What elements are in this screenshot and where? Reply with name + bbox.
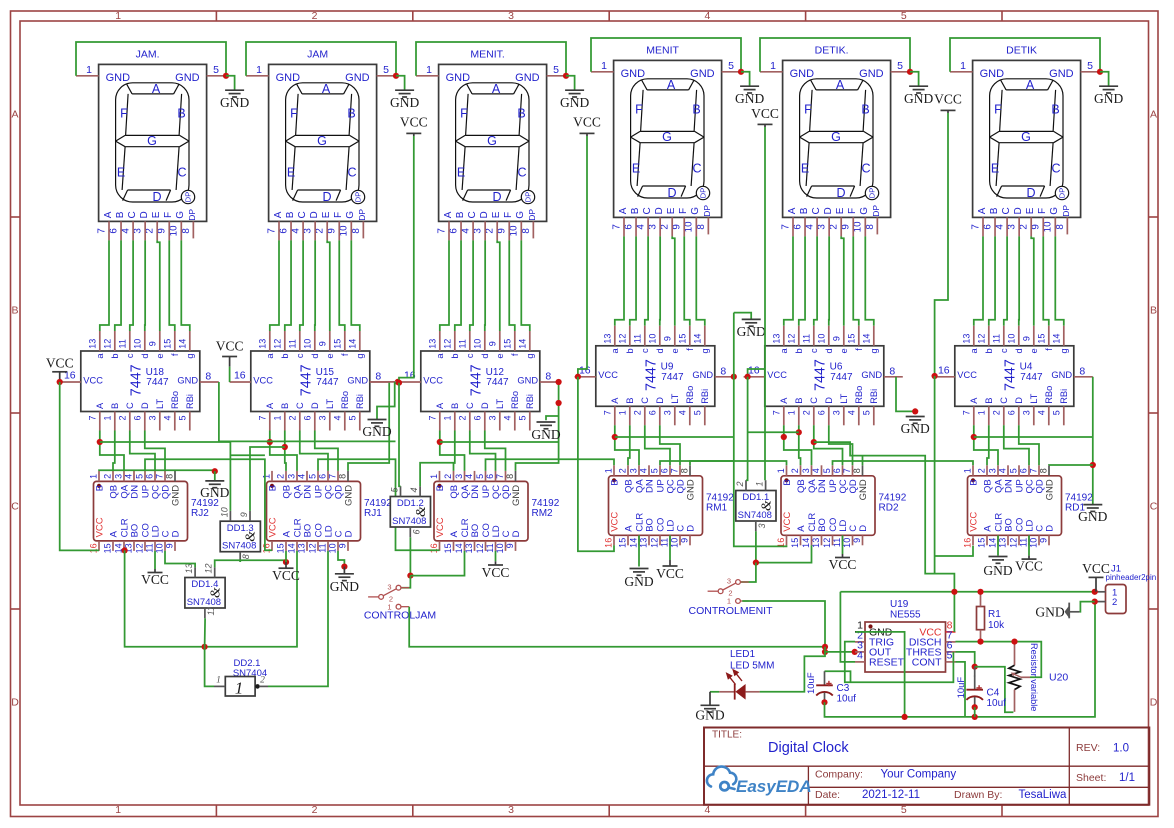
junction RJ2 CLR	[122, 547, 128, 553]
svg-text:1: 1	[770, 60, 776, 72]
7-segment display MENIT	[601, 44, 734, 232]
svg-text:TesaLiwa: TesaLiwa	[1019, 789, 1068, 801]
svg-text:4: 4	[678, 410, 688, 415]
svg-text:11: 11	[832, 538, 842, 547]
wire to DD1.1 pin2	[746, 377, 748, 481]
svg-text:QB: QB	[108, 485, 119, 499]
svg-text:12: 12	[822, 538, 832, 548]
svg-text:DN: DN	[644, 479, 655, 493]
svg-text:A: A	[435, 402, 445, 409]
svg-text:9: 9	[497, 228, 508, 233]
svg-text:DP: DP	[184, 192, 193, 202]
AND gate DD1.2 SN7408	[390, 486, 431, 537]
ground under LED1	[701, 704, 720, 706]
svg-text:7447: 7447	[644, 359, 660, 391]
svg-text:G: G	[1049, 207, 1060, 215]
svg-text:VCC: VCC	[83, 375, 103, 385]
wire DD1.3 output to DD1.4 pin12	[215, 560, 241, 567]
svg-text:13: 13	[998, 538, 1008, 548]
svg-text:E: E	[632, 161, 640, 175]
svg-text:DP: DP	[1058, 188, 1067, 198]
wire to RD1 pin16	[935, 546, 973, 556]
display MENIT. top wire loop	[416, 42, 566, 76]
svg-text:b: b	[984, 348, 994, 353]
7447 BCD decoder U12	[400, 331, 559, 431]
svg-text:GND: GND	[737, 324, 766, 339]
junction at display JAM pin5	[393, 73, 399, 79]
wire DD1.3 column link	[230, 454, 265, 456]
LED1 LED 5MM	[719, 649, 774, 700]
svg-text:G: G	[1021, 130, 1031, 144]
svg-text:5: 5	[213, 64, 219, 76]
svg-text:A: A	[1026, 78, 1035, 92]
svg-text:16: 16	[604, 538, 614, 548]
svg-text:RESET: RESET	[869, 656, 905, 668]
svg-text:RBo: RBo	[170, 391, 180, 409]
svg-text:2: 2	[735, 481, 745, 487]
svg-text:3: 3	[114, 474, 124, 479]
wire TRIG connection	[845, 642, 954, 683]
svg-text:G: G	[662, 130, 672, 144]
svg-text:VCC: VCC	[46, 356, 74, 371]
svg-text:d: d	[140, 354, 150, 359]
svg-text:16: 16	[429, 543, 439, 553]
svg-text:C: C	[125, 402, 135, 409]
svg-text:2: 2	[1019, 224, 1030, 229]
svg-text:C: C	[642, 207, 653, 214]
svg-text:8: 8	[351, 228, 362, 234]
svg-text:D: D	[492, 190, 501, 204]
svg-text:E: E	[457, 165, 465, 179]
svg-text:14: 14	[178, 339, 188, 349]
svg-text:11: 11	[1019, 538, 1029, 547]
svg-text:R1: R1	[988, 609, 1001, 620]
svg-text:BO: BO	[644, 518, 655, 532]
svg-text:7: 7	[428, 415, 438, 420]
svg-text:7: 7	[842, 468, 852, 473]
svg-text:7: 7	[266, 228, 277, 233]
svg-text:7: 7	[603, 410, 613, 415]
svg-text:9: 9	[338, 543, 348, 548]
svg-text:a: a	[779, 347, 789, 353]
svg-text:5: 5	[135, 474, 145, 479]
junction U15 pin8	[395, 379, 401, 385]
display DETIK pin leads	[950, 72, 1100, 237]
svg-text:A: A	[779, 397, 789, 404]
VCC rail channel1 down to RJ2	[60, 382, 99, 550]
svg-text:B: B	[435, 485, 446, 491]
VCC under RD1	[1028, 535, 1030, 555]
svg-text:13: 13	[603, 334, 613, 344]
svg-text:8: 8	[1055, 224, 1066, 230]
svg-text:A: A	[265, 402, 275, 409]
svg-text:10: 10	[133, 339, 143, 349]
svg-text:6: 6	[1019, 468, 1029, 473]
wire DD1.4 output down	[204, 618, 207, 647]
svg-text:4: 4	[461, 228, 472, 234]
svg-text:B: B	[630, 207, 641, 214]
svg-text:D: D	[170, 530, 181, 537]
svg-text:LT: LT	[155, 399, 165, 409]
svg-text:11: 11	[318, 543, 328, 552]
svg-text:JAM: JAM	[307, 48, 328, 60]
7447 BCD decoder U15	[230, 331, 389, 431]
svg-text:D: D	[309, 211, 320, 218]
svg-text:A: A	[969, 397, 979, 404]
svg-text:10: 10	[303, 339, 313, 349]
svg-text:VCC: VCC	[573, 115, 601, 130]
junction at display MENIT. pin5	[563, 73, 569, 79]
svg-text:GND: GND	[390, 95, 419, 110]
svg-text:D: D	[667, 186, 676, 200]
svg-text:RBo: RBo	[685, 386, 695, 404]
svg-text:C: C	[861, 161, 870, 175]
svg-text:1/1: 1/1	[1119, 772, 1135, 784]
svg-text:GND: GND	[1094, 91, 1123, 106]
svg-text:8: 8	[521, 228, 532, 234]
svg-text:3: 3	[318, 415, 328, 420]
svg-text:1: 1	[89, 474, 99, 479]
wire CONTROLJAM pin1 to long bus	[409, 607, 825, 647]
svg-text:B: B	[968, 479, 979, 485]
svg-text:GND: GND	[735, 91, 764, 106]
svg-text:6: 6	[485, 474, 495, 479]
svg-text:7447: 7447	[1020, 372, 1043, 383]
svg-text:10uf: 10uf	[837, 693, 857, 704]
wire DD1.2 output to RM2 CLR	[410, 551, 464, 576]
svg-text:D: D	[322, 190, 331, 204]
svg-text:C4: C4	[987, 687, 1000, 698]
wires display DETIK. to U6	[784, 236, 874, 325]
junction A column U9	[612, 434, 618, 440]
svg-text:b: b	[450, 354, 460, 359]
svg-text:10: 10	[684, 221, 695, 232]
resistor R1 10k	[977, 592, 1006, 642]
svg-text:B: B	[115, 211, 126, 218]
svg-text:12: 12	[308, 543, 318, 553]
wires U6 to RD2	[784, 425, 853, 465]
wire C3 top net	[825, 671, 851, 682]
svg-text:4: 4	[409, 487, 419, 492]
junction U12 pin8 net	[556, 400, 562, 406]
svg-text:e: e	[670, 348, 680, 353]
svg-text:3: 3	[148, 415, 158, 420]
svg-text:a: a	[969, 347, 979, 353]
svg-text:LT: LT	[495, 399, 505, 409]
svg-text:6: 6	[318, 474, 328, 479]
svg-text:10uF: 10uF	[956, 677, 967, 699]
svg-text:12: 12	[787, 334, 797, 344]
svg-text:B: B	[1150, 305, 1157, 317]
svg-text:10: 10	[339, 225, 350, 236]
svg-text:15: 15	[790, 538, 800, 548]
svg-text:b: b	[625, 348, 635, 353]
svg-text:3: 3	[454, 474, 464, 479]
title block	[704, 728, 1149, 805]
svg-text:a: a	[610, 347, 620, 353]
7-segment display DETIK.	[770, 44, 903, 232]
svg-text:A: A	[11, 109, 18, 121]
junction U4 pin16	[932, 373, 938, 379]
wire C4 to rail	[974, 707, 976, 717]
svg-text:DN: DN	[129, 485, 140, 499]
svg-text:C: C	[1051, 161, 1060, 175]
svg-text:8: 8	[852, 468, 862, 473]
wires U4 to RD1	[974, 425, 1039, 465]
wire U15 pin8 to RJ1 pin8	[348, 382, 389, 471]
wire U4.A branch	[974, 436, 1093, 438]
svg-text:13: 13	[811, 538, 821, 548]
svg-text:MENIT: MENIT	[646, 44, 679, 56]
svg-text:9: 9	[841, 224, 852, 229]
svg-text:BO: BO	[129, 524, 140, 538]
svg-text:BO: BO	[470, 524, 481, 538]
svg-text:C: C	[11, 501, 19, 513]
svg-text:3: 3	[287, 474, 297, 479]
svg-text:VCC: VCC	[272, 568, 300, 583]
svg-text:16: 16	[963, 538, 973, 548]
svg-text:LT: LT	[670, 393, 680, 403]
junction at display JAM. pin5	[223, 73, 229, 79]
svg-text:A: A	[322, 82, 331, 96]
svg-text:F: F	[163, 212, 174, 218]
svg-text:1: 1	[601, 60, 607, 72]
display DETIK. top wire loop	[760, 38, 910, 72]
svg-text:14: 14	[454, 543, 464, 553]
svg-text:8: 8	[680, 468, 690, 473]
junction VCC rail R1	[977, 589, 983, 595]
svg-text:GND: GND	[685, 479, 696, 500]
svg-text:DN: DN	[1003, 479, 1014, 493]
svg-text:6: 6	[832, 468, 842, 473]
7447 BCD decoder U18	[60, 331, 219, 431]
svg-text:12: 12	[135, 543, 145, 553]
svg-text:B: B	[625, 398, 635, 404]
wire CONT down	[956, 662, 966, 717]
svg-text:1: 1	[426, 64, 432, 76]
junction U6 pin8 ground	[912, 408, 918, 414]
svg-text:5: 5	[518, 415, 528, 420]
svg-text:A: A	[281, 530, 292, 537]
svg-text:11: 11	[458, 339, 468, 348]
svg-text:4: 4	[847, 410, 857, 415]
svg-text:4: 4	[805, 224, 816, 230]
svg-text:6: 6	[792, 224, 803, 230]
svg-text:C: C	[1001, 207, 1012, 214]
svg-text:RBi: RBi	[869, 389, 879, 404]
svg-text:RBi: RBi	[355, 394, 365, 409]
7-segment display DETIK	[960, 44, 1093, 232]
wire RM1 pin8 link	[690, 461, 734, 465]
svg-text:C: C	[692, 161, 701, 175]
svg-text:1: 1	[86, 64, 92, 76]
svg-text:GND: GND	[1035, 605, 1064, 620]
7447 BCD decoder U4	[934, 326, 1093, 426]
svg-text:RM1: RM1	[706, 502, 728, 513]
svg-text:c: c	[125, 353, 135, 358]
svg-text:DP: DP	[524, 192, 533, 202]
ground under display DETIK. pin5	[909, 85, 928, 87]
svg-text:7447: 7447	[146, 377, 169, 388]
svg-text:VCC: VCC	[598, 370, 618, 380]
svg-text:RJ2: RJ2	[191, 508, 209, 519]
svg-text:RBi: RBi	[700, 389, 710, 404]
svg-text:4: 4	[503, 415, 513, 420]
wire DD2.1 input up	[205, 647, 214, 687]
wire CLR bus down	[125, 550, 297, 646]
svg-text:D: D	[655, 397, 665, 404]
capacitor C3 10uf	[806, 671, 856, 704]
svg-text:10: 10	[219, 507, 229, 517]
svg-text:14: 14	[801, 538, 811, 548]
junction DISCH U20	[1011, 639, 1017, 645]
svg-text:9: 9	[318, 341, 328, 346]
svg-text:3: 3	[727, 577, 731, 586]
svg-text:f: f	[854, 348, 864, 351]
svg-text:GND: GND	[200, 485, 229, 500]
svg-text:4: 4	[464, 474, 474, 479]
bottom ground rail	[826, 602, 1095, 717]
svg-text:F: F	[120, 106, 128, 120]
svg-text:D: D	[11, 697, 19, 709]
svg-text:6: 6	[448, 228, 459, 234]
svg-text:C: C	[517, 165, 526, 179]
svg-text:GND: GND	[170, 485, 181, 506]
svg-text:Sheet:: Sheet:	[1076, 772, 1106, 784]
svg-text:RJ1: RJ1	[364, 508, 382, 519]
wire DD1.3 output to RJ1 pin15	[240, 560, 286, 562]
svg-text:G: G	[147, 134, 157, 148]
svg-text:A: A	[610, 397, 620, 404]
svg-text:RM2: RM2	[532, 508, 554, 519]
svg-text:11: 11	[288, 339, 298, 348]
svg-text:GND: GND	[692, 370, 713, 380]
svg-text:C: C	[465, 402, 475, 409]
svg-text:E: E	[321, 211, 332, 218]
svg-text:B: B	[110, 403, 120, 409]
inverter DD2.1 SN7404	[214, 658, 268, 697]
svg-text:GND: GND	[858, 479, 869, 500]
svg-text:12: 12	[443, 339, 453, 349]
svg-text:3: 3	[1022, 410, 1032, 415]
svg-text:3: 3	[629, 468, 639, 473]
svg-text:D: D	[1150, 697, 1158, 709]
svg-text:2: 2	[312, 804, 318, 816]
svg-text:GND: GND	[904, 91, 933, 106]
junction U18 pin16	[57, 379, 63, 385]
svg-text:b: b	[794, 348, 804, 353]
svg-text:G: G	[690, 207, 701, 215]
svg-text:GND: GND	[511, 485, 522, 506]
svg-text:16: 16	[234, 370, 246, 382]
svg-text:15: 15	[1037, 334, 1047, 344]
junction C4 bottom	[972, 704, 978, 710]
svg-text:15: 15	[847, 334, 857, 344]
wire to ground near U15	[377, 382, 395, 420]
svg-text:C: C	[640, 397, 650, 404]
svg-text:g: g	[185, 354, 195, 359]
svg-text:LT: LT	[1029, 393, 1039, 403]
svg-text:f: f	[685, 348, 695, 351]
svg-text:Date:: Date:	[815, 789, 840, 801]
svg-text:GND: GND	[345, 72, 370, 84]
svg-text:1: 1	[787, 410, 797, 415]
wire VCC rail to DD1.2 pin5	[399, 383, 401, 487]
svg-text:7447: 7447	[813, 359, 829, 391]
svg-text:GND: GND	[347, 375, 368, 385]
svg-text:5: 5	[728, 60, 734, 72]
AND gate DD1.4 SN7408	[184, 563, 225, 618]
display JAM pin leads	[246, 76, 396, 241]
ground under display MENIT pin5	[740, 85, 759, 87]
wire RESET to VCC rail	[840, 592, 855, 662]
wire U4 pin8 down	[1092, 377, 1094, 437]
svg-text:1.0: 1.0	[1113, 743, 1129, 755]
svg-text:10: 10	[817, 334, 827, 344]
wire pin5 to ground	[1100, 72, 1109, 86]
wires display JAM to U15	[270, 240, 360, 331]
svg-text:7: 7	[1029, 468, 1039, 473]
svg-text:8: 8	[241, 554, 251, 559]
svg-text:7: 7	[611, 224, 622, 229]
svg-text:GND: GND	[531, 427, 560, 442]
svg-text:15: 15	[977, 538, 987, 548]
junction rail GND	[902, 714, 908, 720]
pin header J1	[1095, 564, 1157, 614]
74192 counter RM2	[429, 471, 560, 554]
svg-text:QB: QB	[982, 479, 993, 493]
svg-text:B: B	[177, 106, 185, 120]
svg-text:9: 9	[1031, 224, 1042, 229]
svg-text:F: F	[994, 102, 1002, 116]
svg-text:Drawn By:: Drawn By:	[954, 789, 1002, 801]
wire U6.C branch	[814, 442, 935, 573]
svg-text:b: b	[110, 354, 120, 359]
svg-text:GND: GND	[515, 72, 540, 84]
svg-text:EasyEDA: EasyEDA	[736, 777, 812, 796]
svg-text:DP: DP	[1061, 205, 1071, 217]
svg-text:3: 3	[663, 410, 673, 415]
wire pin5 to ground	[910, 72, 919, 86]
svg-text:5: 5	[897, 60, 903, 72]
junction U6 pin16	[745, 374, 751, 380]
svg-text:DP: DP	[354, 192, 363, 202]
svg-text:B: B	[11, 305, 18, 317]
svg-text:4: 4	[998, 468, 1008, 473]
74192 counter RJ2	[89, 471, 220, 554]
svg-text:6: 6	[982, 224, 993, 230]
svg-text:14: 14	[348, 339, 358, 349]
svg-text:1: 1	[960, 60, 966, 72]
svg-text:VCC: VCC	[94, 517, 105, 537]
svg-text:VCC: VCC	[1015, 559, 1043, 574]
svg-text:QB: QB	[449, 485, 460, 499]
svg-text:4: 4	[124, 474, 134, 479]
svg-text:3: 3	[508, 804, 514, 816]
svg-text:6: 6	[303, 415, 313, 420]
wires U18 to RJ2	[100, 431, 165, 471]
svg-text:GND: GND	[560, 95, 589, 110]
AND gate DD1.1 SN7408	[735, 480, 776, 531]
junction THRES C4	[972, 664, 978, 670]
junction RJ1 ground	[341, 564, 347, 570]
VCC rail channel4	[578, 136, 587, 377]
svg-text:GND: GND	[517, 375, 538, 385]
svg-text:8: 8	[181, 228, 192, 234]
svg-text:QB: QB	[281, 485, 292, 499]
svg-text:Company:: Company:	[815, 769, 863, 781]
svg-text:1: 1	[273, 415, 283, 420]
